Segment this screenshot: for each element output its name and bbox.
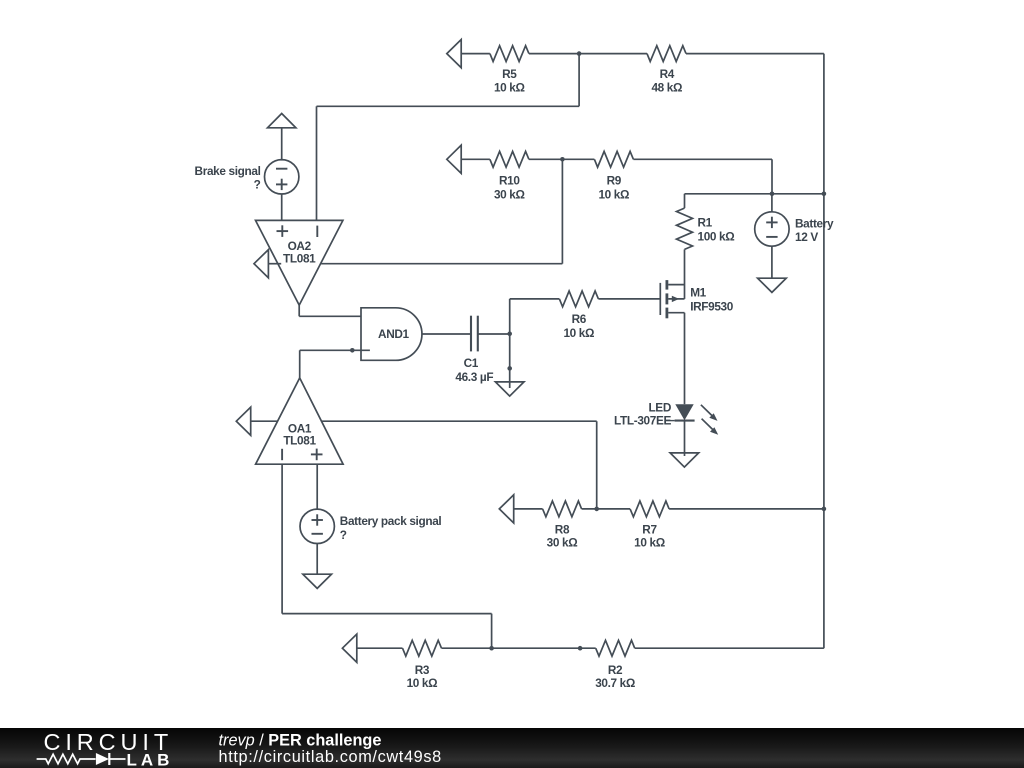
svg-text:Brake signal: Brake signal: [195, 164, 261, 178]
svg-text:R1: R1: [698, 216, 713, 230]
label R9 value: [598, 174, 629, 202]
minus sign: [312, 533, 323, 535]
svg-text:R6: R6: [572, 312, 587, 326]
svg-text:10 kΩ: 10 kΩ: [407, 676, 438, 690]
wire: [357, 647, 403, 649]
plus sign: [312, 514, 323, 525]
resistor R9: [594, 151, 633, 167]
wire: [684, 249, 686, 299]
wire: [281, 194, 283, 221]
wire: [771, 246, 773, 278]
svg-text:AND1: AND1: [378, 327, 410, 341]
label R4 value: [651, 67, 682, 95]
node junction: [770, 192, 775, 197]
wire: [251, 420, 278, 422]
node junction: [822, 192, 827, 197]
svg-text:30.7 kΩ: 30.7 kΩ: [595, 676, 635, 690]
node junction: [489, 646, 494, 651]
wire: [321, 263, 563, 265]
node junction: [560, 157, 565, 162]
svg-text:TL081: TL081: [283, 251, 316, 265]
wire: [461, 158, 490, 160]
svg-text:30 kΩ: 30 kΩ: [494, 187, 525, 201]
wire: [529, 53, 647, 55]
wire right rail: [823, 54, 825, 649]
minus sign: [276, 168, 287, 170]
resistor R6: [559, 291, 598, 307]
svg-text:46.3 µF: 46.3 µF: [455, 370, 493, 384]
node flag (R8 left): [499, 495, 513, 523]
wire: [281, 128, 283, 161]
label R5 value: [494, 67, 525, 95]
resistor R5: [490, 46, 529, 62]
label R8 value: [547, 522, 578, 549]
wire: [461, 53, 490, 55]
label Battery value: [795, 217, 834, 245]
node flag (OA2 left): [254, 250, 268, 278]
svg-text:C1: C1: [464, 356, 479, 370]
label R7 value: [634, 522, 665, 549]
wire: [596, 421, 598, 509]
resistor R3: [403, 640, 442, 656]
svg-text:10 kΩ: 10 kΩ: [494, 81, 525, 95]
wire: [317, 105, 580, 107]
wire: [529, 158, 595, 160]
wire: [422, 333, 471, 335]
svg-text:10 kΩ: 10 kΩ: [598, 187, 629, 201]
wire: [282, 613, 492, 615]
svg-text:Battery: Battery: [795, 217, 834, 231]
label C1 value: [455, 356, 493, 384]
svg-text:Battery pack signal: Battery pack signal: [340, 514, 442, 528]
resistor R2: [596, 640, 635, 656]
wire: [510, 298, 560, 300]
node flag (OA1 left): [236, 407, 250, 435]
voltage source Battery pack signal: [300, 509, 334, 543]
wire: [299, 350, 301, 378]
wire: [771, 194, 773, 212]
label R6 value: [563, 312, 594, 340]
svg-text:M1: M1: [690, 286, 706, 300]
svg-text:10 kΩ: 10 kΩ: [563, 326, 594, 340]
minus sign: [766, 236, 777, 238]
node flag (R10 left): [447, 145, 461, 173]
svg-text:R5: R5: [502, 67, 517, 81]
node junction: [507, 332, 512, 337]
wire: [509, 299, 511, 388]
wire: [771, 159, 773, 194]
footer banner: [0, 728, 1024, 768]
node junction: [822, 507, 827, 512]
wire: [669, 508, 824, 510]
voltage source Battery: [755, 212, 789, 246]
wire: [635, 647, 824, 649]
AND gate AND1: [361, 308, 422, 361]
label LED value: [614, 401, 672, 428]
svg-text:TL081: TL081: [283, 434, 316, 448]
svg-text:LTL-307EE: LTL-307EE: [614, 414, 671, 428]
node junction: [507, 366, 512, 371]
svg-text:LAB: LAB: [127, 750, 174, 768]
node junction: [594, 507, 599, 512]
op-amp U1 OA1: [256, 378, 344, 464]
voltage source Brake signal: [265, 160, 299, 194]
svg-text:R9: R9: [607, 174, 622, 188]
wire: [633, 158, 772, 160]
resistor R8: [543, 501, 582, 517]
transistor M1 IRF9530: [660, 280, 684, 318]
label R10 value: [494, 174, 525, 202]
label Brake signal: [195, 164, 261, 192]
svg-text:R10: R10: [499, 174, 520, 188]
svg-text:R7: R7: [642, 522, 657, 536]
wire: [582, 508, 631, 510]
svg-text:IRF9530: IRF9530: [690, 299, 734, 313]
wire supply rail: [685, 193, 824, 195]
svg-text:?: ?: [254, 178, 261, 192]
label R3 value: [407, 663, 438, 690]
wire drain: [684, 313, 686, 405]
wire: [561, 159, 563, 263]
wire: [684, 194, 686, 208]
ground: [758, 278, 787, 292]
svg-text:http://circuitlab.com/cwt49s8: http://circuitlab.com/cwt49s8: [219, 748, 442, 766]
svg-text:48 kΩ: 48 kΩ: [651, 81, 682, 95]
wire: [686, 53, 824, 55]
LED LTL-307EE: [666, 404, 719, 435]
resistor R1: [677, 208, 693, 249]
wire: [268, 263, 281, 265]
plus sign: [766, 217, 777, 228]
wire: [478, 333, 510, 335]
wire: [316, 544, 318, 575]
svg-text:R4: R4: [660, 67, 675, 81]
label R2 value: [595, 663, 635, 690]
resistor R10: [490, 151, 529, 167]
wire: [684, 421, 686, 456]
svg-text:trevp / PER challenge: trevp / PER challenge: [219, 732, 382, 750]
wire: [316, 464, 318, 509]
node junction: [577, 51, 582, 56]
svg-text:100 kΩ: 100 kΩ: [698, 229, 735, 243]
node flag (R3 left): [342, 634, 356, 662]
svg-text:R8: R8: [555, 522, 570, 536]
wire: [298, 305, 300, 316]
op-amp U2 OA2: [256, 220, 343, 305]
ground: [495, 382, 524, 396]
wire: [281, 464, 283, 613]
wire: [442, 647, 596, 649]
wire: [322, 420, 597, 422]
wire: [491, 614, 493, 649]
svg-text:R2: R2: [608, 663, 623, 677]
resistor R4: [647, 46, 686, 62]
ground: [303, 574, 332, 588]
svg-text:30 kΩ: 30 kΩ: [547, 536, 578, 550]
resistor R7: [630, 501, 669, 517]
wire: [316, 106, 318, 220]
node flag (R5 left): [447, 40, 461, 68]
plus sign: [276, 179, 287, 190]
capacitor C1: [471, 316, 478, 352]
logo schematic squiggle: [37, 753, 126, 765]
node flag (supply arrow): [268, 114, 296, 128]
wire: [299, 315, 361, 317]
label Battery pack signal: [340, 514, 442, 542]
wire: [578, 54, 580, 107]
node junction: [350, 348, 355, 353]
svg-text:?: ?: [340, 528, 347, 542]
wire: [514, 508, 543, 510]
label M1 value: [690, 286, 734, 314]
wire gate: [598, 298, 659, 300]
label R1 value: [698, 216, 735, 244]
ground: [670, 453, 699, 467]
wire: [300, 349, 370, 351]
svg-text:12 V: 12 V: [795, 230, 818, 244]
svg-text:10 kΩ: 10 kΩ: [634, 536, 665, 550]
svg-text:R3: R3: [415, 663, 430, 677]
node junction: [578, 646, 583, 651]
